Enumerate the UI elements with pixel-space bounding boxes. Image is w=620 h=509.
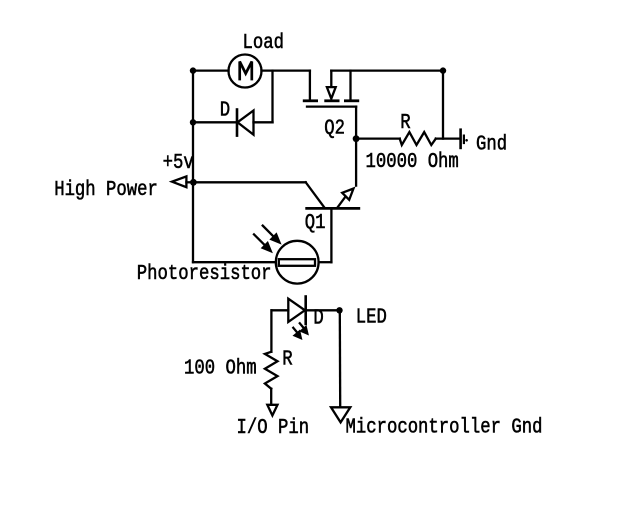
wire diode branch vertical	[271, 71, 273, 123]
ground arrow Microcontroller Gnd	[331, 407, 350, 422]
svg-text:100 Ohm: 100 Ohm	[184, 356, 257, 380]
node junction dot diode-left	[190, 119, 196, 125]
wire right rail vertical	[442, 71, 444, 139]
wire diode anode to branch	[254, 121, 273, 123]
light arrow 1 from LED	[300, 323, 308, 333]
node dot LED right	[336, 307, 342, 313]
node junction dot +5v	[190, 179, 197, 186]
motor M letter	[240, 62, 252, 80]
ground Gnd symbol	[461, 130, 468, 148]
wire left rail vertical	[192, 71, 194, 263]
pin arrow I/O Pin	[267, 405, 277, 416]
wire rail to photoresistor	[193, 261, 276, 263]
svg-text:LED: LED	[356, 305, 387, 329]
svg-text:Q1: Q1	[305, 211, 326, 235]
light arrow 2 into photoresistor	[254, 234, 271, 251]
svg-text:R: R	[282, 347, 293, 371]
wire rail to motor	[193, 69, 229, 71]
wire LED to resistor vertical	[270, 310, 272, 352]
light arrow 1 into photoresistor	[263, 226, 280, 243]
wire resistor to I/O pin arrow	[270, 389, 272, 405]
resistor R 10000 Ohm	[400, 132, 436, 145]
wire motor to Q2 drain	[262, 69, 310, 71]
svg-text:Photoresistor: Photoresistor	[137, 262, 272, 286]
wire diode cathode to rail	[193, 121, 237, 123]
motor M (Load)	[229, 55, 262, 88]
svg-text:I/O Pin: I/O Pin	[237, 416, 310, 440]
resistor R 100 Ohm	[265, 352, 278, 389]
svg-text:Q2: Q2	[324, 116, 345, 140]
svg-text:High Power: High Power	[54, 177, 158, 201]
transistor Q1	[306, 182, 359, 208]
LED diode	[288, 297, 305, 324]
diode D flyback	[237, 110, 254, 136]
wire LED node to mcu gnd	[339, 310, 342, 407]
svg-text:10000 Ohm: 10000 Ohm	[366, 150, 459, 174]
light arrow 2 from LED	[293, 328, 301, 338]
wire resistor to gnd	[436, 137, 460, 139]
wire Q2 source top	[331, 69, 443, 71]
svg-text:+5v: +5v	[163, 151, 194, 175]
node dot top right	[440, 67, 446, 73]
svg-text:Gnd: Gnd	[476, 132, 507, 156]
svg-text:R: R	[400, 111, 411, 135]
node junction dot top-left	[190, 67, 196, 73]
wire photoresistor to base	[319, 261, 332, 263]
svg-text:Load: Load	[243, 30, 284, 54]
transistor Q2 MOSFET	[304, 71, 358, 139]
node dot gate junction	[353, 135, 360, 142]
wire gate to resistor	[356, 137, 400, 139]
wire LED to node	[306, 309, 340, 311]
wire Q1 base vertical	[330, 208, 332, 262]
svg-text:D: D	[220, 98, 230, 122]
wire Q1 emitter vertical	[355, 139, 357, 186]
photoresistor	[276, 241, 319, 284]
svg-text:Microcontroller Gnd: Microcontroller Gnd	[346, 415, 543, 439]
power arrow High Power	[172, 176, 191, 187]
wire +5v to Q1 collector	[193, 181, 305, 183]
wire LED left horizontal	[272, 309, 289, 311]
